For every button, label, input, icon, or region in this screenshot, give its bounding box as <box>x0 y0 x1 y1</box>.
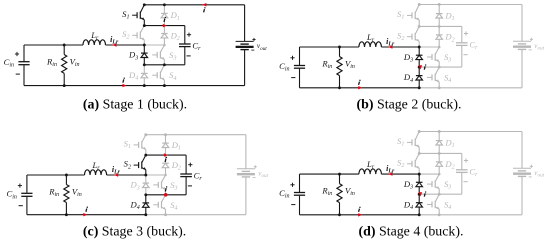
svg-text:Cin: Cin <box>279 188 289 200</box>
panel (c) diode D4 <box>129 195 149 215</box>
panel (a) battery vout <box>236 5 268 86</box>
svg-text:Cr: Cr <box>469 39 478 51</box>
svg-text:(a) Stage 1 (buck).: (a) Stage 1 (buck). <box>83 97 187 112</box>
svg-text:iLr: iLr <box>112 165 121 176</box>
panel (c) transistor S1 <box>124 135 146 155</box>
svg-text:S3: S3 <box>444 179 451 191</box>
panel (b) wire node mid <box>419 46 439 48</box>
panel (a) wire input loop left <box>23 45 25 86</box>
panel (d) wire top rail <box>419 131 522 133</box>
svg-text:S4: S4 <box>169 70 176 82</box>
panel (d) wire bottom rail <box>300 214 523 216</box>
panel (c) caption <box>83 224 186 239</box>
panel (b) wire node j1 <box>419 25 439 27</box>
panel (b) current arrow i bottom <box>358 80 362 90</box>
panel (d) caption <box>359 224 464 239</box>
svg-text:Cin: Cin <box>6 189 16 201</box>
svg-text:S4: S4 <box>444 200 451 212</box>
panel (c) wire node j1 <box>146 154 166 156</box>
panel (d) wire input top <box>300 173 420 175</box>
panel (d) diode D4 <box>403 194 423 215</box>
svg-text:Rin: Rin <box>48 187 59 199</box>
panel (c) resistor Rin / source Vin <box>48 174 82 217</box>
panel (b) wire top rail <box>419 4 522 6</box>
panel (c) diode D2 <box>162 155 181 175</box>
panel (a) wire node j3 <box>144 64 164 66</box>
panel (c) transistor S2 <box>124 155 146 175</box>
panel (a) transistor S2 <box>122 26 144 45</box>
svg-text:D2: D2 <box>444 159 454 171</box>
panel (d) diode D2 <box>436 153 455 174</box>
panel (a) wire node mid <box>144 44 164 46</box>
svg-text:D3: D3 <box>403 52 413 64</box>
panel (a) junction dots <box>143 3 166 87</box>
panel (a) current arrow iLr <box>110 35 119 47</box>
svg-text:Vin: Vin <box>345 186 355 198</box>
svg-text:vout: vout <box>258 170 268 180</box>
svg-text:S2: S2 <box>124 159 131 171</box>
panel (a) transistor S3 <box>152 45 176 65</box>
panel (c) wire bottom rail <box>27 214 246 216</box>
svg-text:D4: D4 <box>129 200 139 212</box>
panel (d) transistor S4 <box>427 194 451 215</box>
svg-text:Rin: Rin <box>321 186 332 198</box>
panel (d) transistor S2 <box>397 153 419 174</box>
svg-text:Lr: Lr <box>91 160 100 172</box>
panel (c) wire node mid <box>146 174 166 176</box>
panel (a) wire input top <box>24 44 144 46</box>
svg-text:D3: D3 <box>128 50 138 62</box>
panel (d) wire node j3 <box>419 193 439 195</box>
panel (b) diode D1 <box>436 5 455 27</box>
svg-text:iLr: iLr <box>110 35 119 46</box>
svg-text:S3: S3 <box>444 52 451 64</box>
svg-text:D1: D1 <box>170 10 180 22</box>
panel (b) caption <box>357 97 462 112</box>
svg-text:Cin: Cin <box>4 57 14 69</box>
svg-text:S1: S1 <box>122 9 129 21</box>
panel (c) wire input loop left <box>26 175 28 215</box>
svg-text:vout: vout <box>534 169 544 179</box>
svg-text:(c) Stage 3 (buck).: (c) Stage 3 (buck). <box>83 224 186 239</box>
panel (b) wire node j3 <box>419 66 439 68</box>
panel (a) transistor S1 <box>122 5 144 26</box>
panel (b) transistor S4 <box>427 67 451 88</box>
svg-text:D3: D3 <box>403 179 413 191</box>
svg-text:S2: S2 <box>397 157 404 169</box>
panel (a) current arrow i bottom <box>123 77 127 87</box>
svg-text:S2: S2 <box>397 30 404 42</box>
panel (b) diode D4 <box>403 67 423 88</box>
svg-text:iLr: iLr <box>386 37 395 48</box>
panel (c) battery vout <box>237 135 269 215</box>
panel (b) resistor Rin / source Vin <box>321 46 355 90</box>
panel (c) diode D1 <box>162 135 181 155</box>
svg-text:(d) Stage 4 (buck).: (d) Stage 4 (buck). <box>359 224 464 239</box>
panel (a) diode D4 <box>128 65 148 86</box>
panel (c) current marker arrR <box>164 153 168 162</box>
panel (c) capacitor Cr <box>166 155 203 195</box>
panel (b) wire input loop left <box>299 47 301 88</box>
svg-text:S1: S1 <box>124 139 131 151</box>
panel (d) current arrow i bottom <box>358 207 362 217</box>
svg-text:S4: S4 <box>170 200 177 212</box>
panel (b) transistor S1 <box>397 5 419 27</box>
svg-text:Cr: Cr <box>469 166 478 178</box>
svg-text:S1: S1 <box>397 9 404 21</box>
panel (b) diode D3 <box>403 47 423 67</box>
panel (a) wire node j1 <box>144 25 164 27</box>
svg-text:D4: D4 <box>128 70 138 82</box>
panel (c) transistor S3 <box>153 175 177 195</box>
panel (b) capacitor Cr <box>439 26 478 67</box>
panel (a) transistor S4 <box>152 65 176 86</box>
svg-text:(b) Stage 2 (buck).: (b) Stage 2 (buck). <box>357 97 462 112</box>
panel (c) wire top rail <box>146 134 246 136</box>
svg-text:Lr: Lr <box>366 32 375 44</box>
svg-text:Lr: Lr <box>90 30 99 42</box>
panel (c) capacitor Cin <box>6 184 32 206</box>
panel (b) current arrow iLr <box>386 37 395 49</box>
svg-text:D1: D1 <box>444 10 454 22</box>
panel (c) current marker dot <box>164 186 168 196</box>
panel (b) wire input top <box>300 46 420 48</box>
panel (d) junction dots <box>418 130 441 216</box>
panel (a) inductor Lr <box>83 30 106 45</box>
svg-text:Rin: Rin <box>46 57 57 69</box>
panel (a) caption <box>83 97 187 112</box>
svg-text:D2: D2 <box>171 160 181 172</box>
svg-text:Vin: Vin <box>345 59 355 71</box>
panel (a) capacitor Cin <box>4 52 30 74</box>
svg-text:Cr: Cr <box>194 171 203 183</box>
panel (b) wire bottom rail <box>300 87 523 89</box>
svg-text:D1: D1 <box>171 140 181 152</box>
svg-text:D3: D3 <box>129 180 139 192</box>
svg-text:D4: D4 <box>403 72 413 84</box>
panel (a) diode D1 <box>161 5 180 26</box>
panel (d) diode D3 <box>403 174 423 194</box>
panel (b) battery vout <box>513 5 545 88</box>
svg-text:Rin: Rin <box>321 59 332 71</box>
svg-text:Cr: Cr <box>192 41 201 53</box>
panel (a) current marker arrR <box>163 17 167 28</box>
panel (d) battery vout <box>513 132 545 215</box>
panel (a) capacitor Cr <box>164 26 201 65</box>
panel (d) capacitor Cin <box>279 183 305 205</box>
svg-text:Vin: Vin <box>70 57 80 69</box>
svg-text:Vin: Vin <box>72 187 82 199</box>
panel (d) wire node mid <box>419 173 439 175</box>
svg-text:iLr: iLr <box>386 164 395 175</box>
svg-text:D4: D4 <box>403 199 413 211</box>
panel (a) wire top rail <box>144 4 244 6</box>
svg-text:S2: S2 <box>122 29 129 41</box>
panel (d) current marker arrD <box>419 191 427 196</box>
panel (a) diode D2 <box>161 26 180 45</box>
svg-text:S1: S1 <box>397 136 404 148</box>
panel (d) current arrow iLr <box>386 164 395 176</box>
panel (b) diode D2 <box>436 26 455 47</box>
panel (c) wire node j3 <box>146 194 166 196</box>
panel (b) junction dots <box>418 3 441 89</box>
panel (a) wire bottom rail <box>24 85 245 87</box>
panel (d) wire input loop left <box>299 174 301 215</box>
panel (a) current arrow i top <box>202 3 206 12</box>
panel (d) inductor Lr <box>359 159 382 174</box>
panel (d) transistor S3 <box>427 174 451 194</box>
svg-text:D1: D1 <box>444 137 454 149</box>
panel (c) current arrow i bottom <box>83 207 88 217</box>
panel (b) transistor S2 <box>397 26 419 47</box>
panel (a) diode D3 <box>128 45 148 65</box>
svg-text:vout: vout <box>534 42 544 52</box>
svg-text:S3: S3 <box>169 50 176 62</box>
svg-text:Cin: Cin <box>279 61 289 73</box>
svg-text:S4: S4 <box>444 72 451 84</box>
panel (d) capacitor Cr <box>439 153 478 194</box>
panel (d) transistor S1 <box>397 132 419 154</box>
panel (a) resistor Rin / source Vin <box>46 44 80 88</box>
panel (c) transistor S4 <box>153 195 177 215</box>
panel (d) diode D1 <box>436 132 455 154</box>
panel (b) transistor S3 <box>427 47 451 67</box>
panel (b) current marker arrD <box>419 64 427 69</box>
panel (c) current arrow iLr <box>112 165 121 177</box>
svg-text:Lr: Lr <box>366 159 375 171</box>
svg-text:D2: D2 <box>444 32 454 44</box>
panel (c) wire input top <box>27 174 146 176</box>
panel (d) wire node j1 <box>419 152 439 154</box>
panel (b) capacitor Cin <box>279 56 305 78</box>
panel (d) resistor Rin / source Vin <box>321 173 355 217</box>
panel (c) inductor Lr <box>85 160 107 175</box>
panel (c) junction dots <box>144 133 167 216</box>
svg-text:D2: D2 <box>170 30 180 42</box>
panel (c) diode D3 <box>129 175 149 195</box>
panel (b) inductor Lr <box>359 32 382 47</box>
svg-text:vout: vout <box>257 42 267 52</box>
svg-text:S3: S3 <box>170 180 177 192</box>
